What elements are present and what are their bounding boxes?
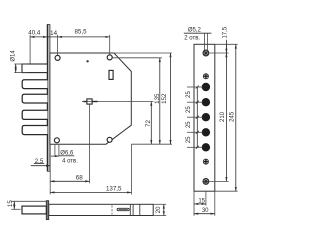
lock body outline (front view) <box>50 53 131 144</box>
dim 30 (plate) <box>194 208 215 214</box>
svg-text:152: 152 <box>161 93 168 104</box>
bolt hole 5 <box>202 143 210 151</box>
dim 15 (plate) <box>194 199 206 205</box>
dim 72 <box>131 102 172 145</box>
dim 85,5 <box>58 29 110 55</box>
side centerline (dashed) <box>111 205 113 214</box>
dim 135 <box>113 58 162 144</box>
bolt hole 4 <box>202 128 210 136</box>
threaded hole top <box>203 74 208 79</box>
dim 17,5 <box>222 26 228 57</box>
faceplate (front view, edge-on vertical bar) <box>47 24 50 171</box>
svg-text:15: 15 <box>198 199 205 205</box>
svg-text:17,5: 17,5 <box>222 26 228 38</box>
svg-text:25: 25 <box>186 91 192 98</box>
top edge extension line to right dims <box>114 52 172 54</box>
mounting hole bottom-right <box>107 137 112 142</box>
side bolt <box>22 206 46 214</box>
dim chain 25 x4 <box>186 86 203 149</box>
threaded hole bottom <box>203 159 208 164</box>
dim 2,5 (faceplate thickness) <box>31 158 51 166</box>
side slot <box>117 208 129 210</box>
svg-text:Ø14: Ø14 <box>11 50 17 62</box>
svg-text:20: 20 <box>156 206 162 213</box>
small pivot dot <box>86 60 88 62</box>
bolt 4 <box>22 126 47 135</box>
svg-text:245: 245 <box>229 111 235 122</box>
svg-text:72: 72 <box>145 120 152 127</box>
svg-text:14: 14 <box>50 30 57 37</box>
dim D14 (pin) <box>11 50 28 73</box>
svg-text:4 отв.: 4 отв. <box>62 159 78 165</box>
svg-text:Ø5,2: Ø5,2 <box>188 28 202 34</box>
svg-text:25: 25 <box>186 121 192 128</box>
label D5,2 / 2 holes <box>184 28 212 50</box>
svg-text:15: 15 <box>8 200 14 207</box>
svg-text:135: 135 <box>154 93 161 104</box>
dim 15 (side) <box>8 200 47 210</box>
dim 152 <box>161 53 170 144</box>
side faceplate bar <box>46 201 48 220</box>
deadbolt pin D14 (top) <box>22 64 47 73</box>
side divider lines <box>129 204 131 215</box>
screw hole bottom <box>203 178 209 184</box>
svg-text:25: 25 <box>186 136 192 143</box>
bolt 1 <box>22 80 47 89</box>
bottom extension lines of strike plate <box>193 191 195 216</box>
svg-text:40,4: 40,4 <box>28 30 41 37</box>
bolt 3 <box>22 110 47 119</box>
vertical slot <box>109 70 113 79</box>
dim 40,4 <box>28 30 47 64</box>
bolt hole 2 <box>202 98 210 106</box>
dim 137,5 <box>50 144 131 194</box>
screw hole top <box>203 50 209 56</box>
svg-text:30: 30 <box>202 208 209 214</box>
dim 68 <box>50 144 89 194</box>
bolt hole 1 <box>202 83 210 91</box>
spindle square with crosshair <box>82 99 131 183</box>
dim 20 (side) <box>153 204 166 215</box>
bolt 2 <box>22 94 47 103</box>
svg-text:210: 210 <box>220 111 226 122</box>
strike plate outline <box>194 44 215 191</box>
mounting hole top-left <box>55 55 60 60</box>
label D6,6 / 4 holes <box>51 145 78 165</box>
mounting hole bottom-left <box>54 138 59 143</box>
svg-text:137,5: 137,5 <box>106 186 122 193</box>
svg-text:85,5: 85,5 <box>74 29 87 36</box>
dim 210 <box>220 53 226 181</box>
mounting hole top-right <box>107 55 112 60</box>
side body <box>49 204 154 215</box>
bolt hole 3 <box>202 113 210 121</box>
right extension lines <box>215 43 238 45</box>
svg-text:25: 25 <box>186 106 192 113</box>
dim 14 <box>47 30 57 55</box>
svg-text:2 отв.: 2 отв. <box>184 36 200 42</box>
svg-text:68: 68 <box>76 175 83 182</box>
dim 245 <box>229 44 235 191</box>
